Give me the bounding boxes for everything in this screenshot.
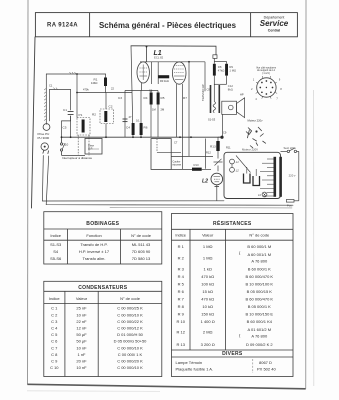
svg-text:D 09 000/2 K 2: D 09 000/2 K 2 — [246, 342, 273, 347]
svg-text:R 7: R 7 — [178, 297, 185, 302]
svg-text:Fonction: Fonction — [86, 233, 101, 238]
svg-text:R2: R2 — [92, 112, 96, 116]
svg-text:A 60 001/1 M: A 60 001/1 M — [248, 252, 272, 257]
svg-text:C 00 000/10 K: C 00 000/10 K — [117, 365, 143, 370]
svg-text:R11: R11 — [226, 146, 231, 150]
svg-text:C 00 000/12 K: C 00 000/12 K — [117, 326, 143, 331]
svg-text:10 nF: 10 nF — [76, 365, 87, 370]
svg-text:TRANSFO HP: TRANSFO HP — [201, 84, 205, 101]
svg-text:R5: R5 — [161, 96, 165, 100]
svg-text:0,1: 0,1 — [136, 119, 140, 123]
svg-text:R 13: R 13 — [176, 342, 185, 347]
svg-text:1 400 Ω: 1 400 Ω — [201, 319, 215, 324]
svg-text:12 nF: 12 nF — [76, 326, 87, 331]
svg-text:RÉSISTANCES: RÉSISTANCES — [213, 219, 252, 227]
svg-text:R 4: R 4 — [178, 274, 185, 279]
svg-text:47kΩ: 47kΩ — [218, 68, 225, 72]
svg-text:B 60 000/1 K: B 60 000/1 K — [248, 267, 271, 272]
svg-text:Sect 220v: Sect 220v — [284, 146, 297, 150]
svg-text:C 3: C 3 — [51, 319, 58, 324]
svg-text:R 9: R 9 — [178, 312, 185, 317]
svg-text:1 kΩ: 1 kΩ — [204, 267, 212, 272]
svg-text:Transfo de H.P.: Transfo de H.P. — [80, 242, 107, 247]
svg-text:C 9: C 9 — [51, 359, 58, 364]
svg-text:C 4: C 4 — [51, 326, 58, 331]
svg-text:C10: C10 — [63, 142, 69, 146]
svg-text:H.P.: H.P. — [88, 147, 93, 151]
svg-text:C9: C9 — [223, 131, 227, 135]
svg-text:C1: C1 — [49, 84, 53, 88]
svg-text:C 2: C 2 — [51, 312, 58, 317]
svg-text:Plaquette fusible 1 A.: Plaquette fusible 1 A. — [176, 366, 214, 371]
svg-text:470k: 470k — [83, 88, 89, 92]
svg-text:7D 605 90: 7D 605 90 — [132, 249, 151, 254]
svg-text:Moteur 220v: Moteur 220v — [248, 118, 264, 122]
svg-text:22 nF: 22 nF — [76, 319, 87, 324]
svg-text:20 nF: 20 nF — [76, 359, 87, 364]
svg-text:8067 D: 8067 D — [259, 360, 272, 365]
svg-text:D 01 000/H 50: D 01 000/H 50 — [117, 332, 144, 337]
svg-text:R 3: R 3 — [178, 267, 185, 272]
svg-text:B 10 000/100 K: B 10 000/100 K — [246, 282, 274, 287]
svg-text:S1-S3: S1-S3 — [50, 242, 62, 247]
svg-text:Valeur: Valeur — [202, 232, 214, 237]
svg-text:B 60 000/470 K: B 60 000/470 K — [246, 274, 274, 279]
svg-text:réponse: réponse — [173, 163, 182, 166]
svg-text:Lampe Témoin: Lampe Témoin — [176, 360, 203, 365]
svg-text:R10: R10 — [194, 163, 200, 167]
svg-text:B 60 000/1 K4: B 60 000/1 K4 — [247, 319, 273, 324]
svg-text:S5-S6: S5-S6 — [50, 256, 62, 261]
svg-text:ML 511 43: ML 511 43 — [132, 242, 151, 247]
svg-text:C4: C4 — [126, 125, 130, 129]
svg-text:H.P. inversé ± 17: H.P. inversé ± 17 — [79, 249, 110, 254]
svg-text:R13: R13 — [210, 145, 216, 149]
svg-text:25 nF: 25 nF — [76, 306, 87, 311]
svg-text:B 05 000/1 K: B 05 000/1 K — [248, 304, 271, 309]
svg-text:N° de code: N° de code — [249, 232, 270, 237]
svg-text:8kΩ: 8kΩ — [228, 87, 233, 91]
svg-text:Transfo alim.: Transfo alim. — [83, 256, 106, 261]
svg-text:C 00 000/10 K: C 00 000/10 K — [117, 312, 143, 317]
svg-text:C 6: C 6 — [51, 339, 58, 344]
svg-text:HP: HP — [240, 93, 244, 97]
svg-text:C1: C1 — [63, 108, 67, 112]
svg-text:C 00 000/25 K: C 00 000/25 K — [117, 306, 143, 311]
svg-text:Service: Service — [260, 19, 289, 28]
svg-text:P1: P1 — [79, 113, 83, 117]
svg-text:7D 580 13: 7D 580 13 — [132, 256, 151, 261]
svg-text:50 µF: 50 µF — [76, 339, 87, 344]
svg-text:470 kΩ: 470 kΩ — [201, 297, 214, 302]
svg-text:S1-S3: S1-S3 — [208, 118, 216, 122]
svg-text:R7: R7 — [183, 96, 187, 100]
svg-text:PU 3000: PU 3000 — [38, 136, 50, 140]
svg-text:2 MΩ: 2 MΩ — [203, 330, 213, 335]
svg-text:C 00 000/22 K: C 00 000/22 K — [117, 319, 143, 324]
svg-text:R12: R12 — [206, 150, 211, 154]
svg-text:N° de code: N° de code — [131, 233, 152, 238]
svg-text:10 kΩ: 10 kΩ — [202, 304, 213, 309]
svg-text:R 12: R 12 — [176, 330, 185, 335]
svg-text:BOBINAGES: BOBINAGES — [86, 221, 119, 227]
svg-text:R 5: R 5 — [178, 282, 185, 287]
svg-text:R6: R6 — [144, 125, 148, 129]
svg-text:Moteur 220V: Moteur 220V — [242, 148, 258, 152]
svg-text:Indice: Indice — [175, 232, 186, 237]
svg-text:1 MΩ: 1 MΩ — [203, 256, 213, 261]
svg-text:( 1 à 9 ): ( 1 à 9 ) — [262, 72, 270, 75]
svg-text:C5: C5 — [63, 125, 67, 129]
svg-text:R 2: R 2 — [178, 256, 185, 261]
svg-text:A 76 800: A 76 800 — [251, 259, 268, 264]
svg-text:220 v: 220 v — [289, 174, 296, 178]
svg-text:2M: 2M — [161, 108, 165, 112]
svg-text:Indice: Indice — [49, 296, 60, 301]
svg-text:PX 502 40: PX 502 40 — [257, 366, 276, 371]
svg-text:B 60 000/1 M: B 60 000/1 M — [247, 244, 271, 249]
svg-text:D 05 000/G 50+50: D 05 000/G 50+50 — [114, 339, 148, 344]
svg-text:1M: 1M — [152, 108, 156, 112]
svg-text:10 nF: 10 nF — [76, 312, 87, 317]
svg-text:RA 9124A: RA 9124A — [47, 23, 78, 29]
svg-text:C 00 000/20 K: C 00 000/20 K — [117, 359, 143, 364]
svg-text:10 nF: 10 nF — [76, 345, 87, 350]
svg-text:C2: C2 — [109, 104, 113, 108]
svg-text:470 kΩ: 470 kΩ — [201, 274, 214, 279]
svg-text:1 MΩ: 1 MΩ — [229, 68, 236, 72]
svg-text:B 60 000/470 K: B 60 000/470 K — [246, 297, 274, 302]
svg-text:1MΩ: 1MΩ — [91, 81, 98, 85]
svg-text:R 1: R 1 — [178, 244, 185, 249]
svg-text:C 00 000/10 K: C 00 000/10 K — [117, 345, 143, 350]
svg-text:B 10 000/150 E: B 10 000/150 E — [246, 312, 274, 317]
svg-text:ECL 82: ECL 82 — [154, 55, 164, 59]
svg-text:CONDENSATEURS: CONDENSATEURS — [78, 285, 127, 291]
svg-text:C 1: C 1 — [51, 306, 58, 311]
svg-text:1 nF: 1 nF — [77, 352, 86, 357]
svg-text:Valeur: Valeur — [76, 296, 88, 301]
svg-text:C3: C3 — [118, 96, 122, 100]
svg-text:C 10: C 10 — [50, 365, 59, 370]
svg-text:150 kΩ: 150 kΩ — [201, 312, 214, 317]
svg-text:50 µF: 50 µF — [76, 332, 87, 337]
svg-text:Interrupteur à distance: Interrupteur à distance — [62, 156, 92, 160]
svg-text:C 8: C 8 — [51, 352, 58, 357]
svg-text:A 01 601/2 M: A 01 601/2 M — [248, 327, 272, 332]
svg-text:R 10: R 10 — [176, 319, 185, 324]
svg-text:1 MΩ: 1 MΩ — [203, 244, 213, 249]
svg-text:R 8: R 8 — [178, 304, 185, 309]
svg-text:R 6: R 6 — [178, 289, 185, 294]
svg-text:3 200 Ω: 3 200 Ω — [201, 342, 215, 347]
svg-text:L2: L2 — [202, 178, 208, 184]
svg-text:Indice: Indice — [50, 233, 61, 238]
svg-text:R4: R4 — [144, 96, 148, 100]
svg-text:Fus.: Fus. — [287, 203, 293, 207]
svg-text:15 kΩ: 15 kΩ — [202, 289, 213, 294]
svg-text:S4: S4 — [53, 249, 59, 254]
svg-text:C 5: C 5 — [51, 332, 58, 337]
svg-text:DIVERS: DIVERS — [222, 351, 243, 357]
svg-text:100 kΩ: 100 kΩ — [201, 282, 214, 287]
svg-text:C6: C6 — [149, 89, 153, 93]
svg-text:Central: Central — [268, 29, 280, 33]
svg-text:A 76 800: A 76 800 — [251, 334, 268, 339]
svg-text:C 00 000/ 1 K: C 00 000/ 1 K — [118, 352, 143, 357]
svg-text:N° de code: N° de code — [120, 296, 141, 301]
svg-text:R3 1kΩ: R3 1kΩ — [160, 79, 169, 83]
svg-text:C 7: C 7 — [51, 345, 58, 350]
svg-text:C7: C7 — [174, 141, 178, 145]
svg-text:Schéma général - Pièces électr: Schéma général - Pièces électriques — [99, 21, 237, 30]
svg-text:B 05 000/15 K: B 05 000/15 K — [247, 289, 273, 294]
